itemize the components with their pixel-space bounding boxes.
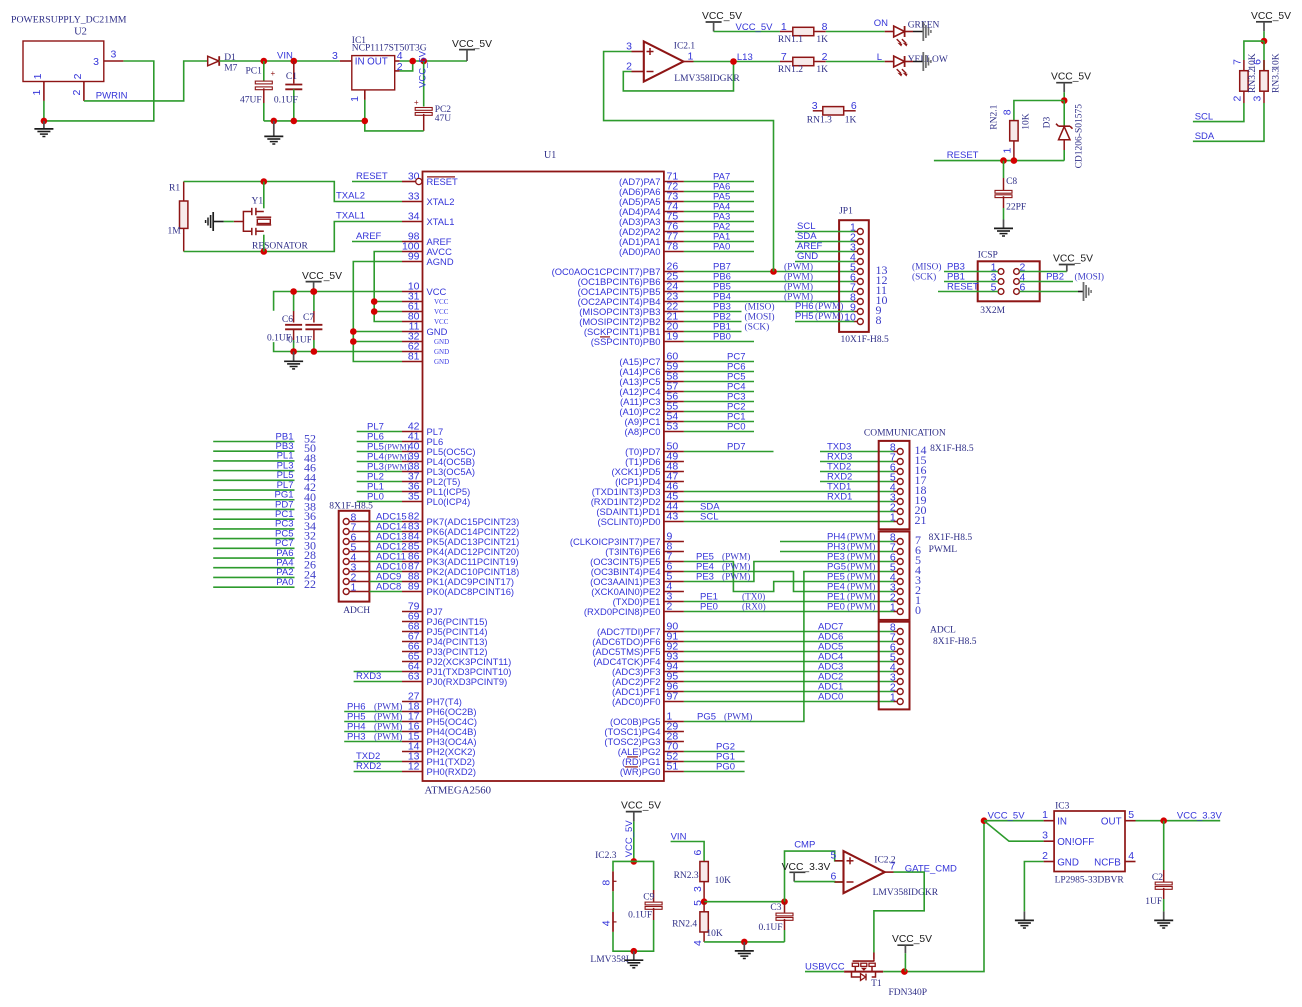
svg-text:1K: 1K [816,35,828,45]
wire GND rail row62 [274,342,402,351]
svg-text:34: 34 [408,211,420,223]
U1 pin 38 PL3(OC5A) [402,461,475,477]
wire IC1 OUT to VCC_5V supply [400,60,467,62]
svg-text:47UF: 47UF [240,96,262,106]
svg-text:89: 89 [408,581,420,593]
svg-text:SDA: SDA [1195,131,1215,142]
ADCH pin 3 [343,562,369,575]
U1 pin 55 (A10)PC2 [619,401,684,417]
svg-text:PG5: PG5 [697,712,716,723]
wire net PA0 [684,242,754,253]
U1 pin 77 (AD1)PA1 [619,231,684,247]
svg-text:L: L [877,52,882,63]
svg-text:COMMUNICATION: COMMUNICATION [864,428,946,438]
wire net PA1 [684,232,754,243]
svg-text:0.1UF: 0.1UF [759,923,783,933]
wire net TXD1 PD3 to COMMUNICATION [684,482,894,493]
svg-text:GND: GND [434,358,449,366]
U1 pin 39 PL4(OC5B) [402,451,475,467]
U1 pin 80 VCC [402,311,449,326]
ADCH pin 8 [343,512,369,525]
net stub PA4 pin 26 [213,558,316,572]
U1 pin 71 (AD7)PA7 [619,171,684,187]
svg-text:GND: GND [427,326,448,337]
svg-text:2: 2 [626,60,632,72]
svg-text:ADC8: ADC8 [376,582,401,593]
U1 pin 18 PH6(OC2B) [402,701,477,717]
wire net SDA PD1 to COMMUNICATION [684,502,894,513]
svg-text:PE3: PE3 [696,572,714,583]
svg-text:OUT: OUT [367,57,388,68]
wire net PL5 to U1 [357,442,410,453]
wire net PE1 to PWML pin2 [684,592,894,603]
svg-text:8: 8 [1001,109,1013,115]
wire net ADC3 to ADCL [684,662,894,673]
net stub PL5 pin 44 [213,470,316,484]
wire net PL2 to U1 [357,472,402,483]
JP1 pin 9 [850,302,882,318]
net stub PG1 pin 40 [213,490,316,504]
svg-text:0.1UF: 0.1UF [274,96,298,106]
wire PWRIN from U2 pin2 to D1 [84,61,208,102]
U1 pin 43 (SCLINT0)PD0 [597,511,683,527]
wire net PB5 (PWM) to JP1 [684,282,854,293]
svg-text:1UF: 1UF [1145,897,1162,907]
svg-text:PWRIN: PWRIN [96,91,128,102]
supply VCC_5V at T1 [892,934,932,972]
svg-text:PB0: PB0 [713,332,731,343]
resistor R1 1M [168,182,188,252]
JP1 pin 7 [850,282,887,298]
U1 pin 67 PJ4(PCINT13) [402,631,487,647]
U1 pin 24 (OC1APCINT5)PB5 [578,281,684,297]
junction dots at resonator [261,178,268,255]
svg-text:4: 4 [601,920,613,926]
wire ICSP pin2 to VCC_5V [1019,271,1066,273]
svg-text:PG5: PG5 [827,562,846,573]
wire net PH4 (PWM) to U1 [344,722,402,733]
junction dot IC2.3 top [631,858,638,865]
wire net PB7 (PWM) to JP1 [684,262,854,273]
svg-text:CMP: CMP [794,839,815,850]
svg-text:LP2985-33DBVR: LP2985-33DBVR [1055,876,1125,886]
wire XTAL2 top rail [184,182,402,202]
wire net SCL PD0 to COMMUNICATION [684,512,894,523]
PWML pin 1 [890,602,921,618]
wire net PE4 to PWML pin3 [684,562,894,593]
junction dot VCC reset [1061,97,1068,104]
svg-text:RN1.1: RN1.1 [778,35,803,45]
svg-text:USBVCC: USBVCC [805,961,845,972]
wire VCC_5V to IC3 ON!OFF [984,821,1044,842]
U1 pin 5 (OC3AAIN1)PE3 [590,571,684,587]
COMMUNICATION pin 5 [890,472,927,488]
svg-text:3: 3 [332,50,338,62]
wire net PG1 [684,752,745,763]
JP1 pin 10 [844,312,881,328]
wire ADC8 from ADCH to U1 [369,582,402,593]
svg-text:1: 1 [31,90,43,96]
svg-text:PL0(ICP4): PL0(ICP4) [427,496,471,507]
svg-text:VCC_5V: VCC_5V [452,39,492,50]
ICSP pins 1 2 [991,262,1026,275]
ground under U2 [34,121,53,137]
svg-text:AREF: AREF [356,231,382,242]
ADCH pin 2 [343,572,369,585]
U1 pin 2 (RXD0PCIN8)PE0 [584,601,684,617]
wire net PG2 [684,742,745,753]
svg-text:PH3: PH3 [347,732,365,743]
svg-text:Y1: Y1 [252,196,264,206]
wire IC2.1 output L13 [694,52,780,63]
U1 pin 97 (ADC0)PF0 [612,691,684,707]
ground under C6 [284,352,303,369]
svg-text:C7: C7 [303,313,314,323]
net AREF to U1 [352,231,402,242]
wire net RXD3 stub at COMMUNICATION [820,452,894,463]
ADCL pin 3 [890,672,903,685]
transistor T1 FDN340P [844,960,927,998]
wire net PC4 [684,382,754,393]
svg-text:53: 53 [667,421,679,433]
power connector U2 POWERSUPPLY_DC21MM [11,15,127,101]
wire net PL7 to U1 [357,422,402,433]
wire net SDA pullup [1193,103,1264,142]
U1 pin 94 (ADC3)PF3 [612,661,684,677]
junction dot at T1 drain supply [901,968,908,975]
svg-text:(PWM): (PWM) [847,552,875,563]
wire net ADC4 to ADCL [684,652,894,663]
U1 pin 100 AVCC [402,241,452,257]
svg-text:1: 1 [890,692,896,704]
capacitor C8 22PF [995,161,1026,220]
svg-text:(PWM): (PWM) [847,562,875,573]
junction dot IC2.3 bottom [631,948,638,955]
svg-text:SCL: SCL [1195,111,1213,122]
U1 pin 41 PL6 [402,431,443,447]
wire net PD7 [684,442,774,453]
wire net PB2 MOSI [684,312,775,323]
svg-text:PK0(ADC8PCINT16): PK0(ADC8PCINT16) [427,586,515,597]
wire net PC7 [684,352,754,363]
svg-text:RESET: RESET [947,150,979,161]
resistor RN1.2 1K [778,51,828,75]
wire net TXD2 stub at COMMUNICATION [820,462,894,473]
svg-text:6: 6 [1252,59,1264,65]
wire net SCL stub at JP1 [795,221,854,232]
svg-text:(AD0)PA0: (AD0)PA0 [619,246,661,257]
U1 pin 47 (ICP1)PD4 [615,471,684,487]
U1 pin 61 VCC [402,301,449,316]
wire net TXD3 stub PJ1 [354,671,402,673]
svg-text:(MOSI): (MOSI) [745,312,775,323]
svg-text:IC2.2: IC2.2 [874,856,896,866]
wire net ADC7 to ADCL [684,622,894,633]
U1 pin 63 PJ0(RXD3PCINT9) [402,671,507,687]
svg-text:RESONATOR: RESONATOR [252,241,308,251]
svg-text:(SCK): (SCK) [912,272,936,283]
wire RESET to ICSP pin5 [938,282,998,293]
svg-text:RXD2: RXD2 [827,472,852,483]
PWML pin 7 [890,542,921,558]
connector PWML 8X1F-H8.5 outline [879,532,973,620]
svg-text:(PWM): (PWM) [815,311,843,322]
svg-text:VCC_3.3V: VCC_3.3V [782,862,831,873]
svg-text:PH3: PH3 [827,542,845,553]
connector JP1 10X1F-H8.5 outline [839,207,889,345]
wire IC3 OUT VCC_3.3V [1136,811,1223,822]
U1 pin 70 (ALE)PG2 [618,741,684,757]
PWML pin 4 [890,572,921,588]
U1 pin 45 (RXD1INT2)PD2 [591,491,684,507]
resistor RN1.3 1K spare [807,100,857,126]
svg-text:C9: C9 [643,893,654,903]
capacitor PC2 47U [414,50,451,131]
U1 pin 10 VCC [402,281,447,297]
svg-text:(PWM): (PWM) [847,572,875,583]
wire net RESET row [934,150,1064,161]
net stub PA2 pin 24 [213,567,316,581]
wire AGND chain [353,262,402,362]
svg-text:(TX0): (TX0) [742,592,765,603]
svg-text:0.1UF: 0.1UF [628,911,652,921]
svg-text:22PF: 22PF [1006,203,1026,213]
net stub PD7 pin 38 [213,499,316,513]
svg-text:(RXD0PCIN8)PE0: (RXD0PCIN8)PE0 [584,606,661,617]
svg-text:(PWM): (PWM) [784,282,813,293]
wire net PE0 to PWML pin1 [684,602,894,613]
svg-text:8X1F-H8.5: 8X1F-H8.5 [930,444,974,454]
ADCL pin 2 [890,682,903,695]
wire net PC6 [684,362,754,373]
svg-text:VIN: VIN [277,50,293,61]
U1 pin 68 PJ5(PCINT14) [402,621,487,637]
svg-text:51: 51 [667,761,679,773]
PWML pin 5 [890,562,921,578]
svg-text:33: 33 [408,191,420,203]
wire net PA3 [684,212,754,223]
capacitor PC1 47UF [240,61,276,121]
U1 pin 12 PH0(RXD2) [402,761,476,777]
ADCH pin 4 [343,552,369,565]
svg-text:1: 1 [781,21,787,33]
svg-text:RN2.4: RN2.4 [672,919,697,929]
resistor RN3.3 10K pullup SDA [1252,41,1282,103]
U1 pin 37 PL2(T5) [402,471,460,487]
U1 pin 15 PH3(OC4A) [402,731,477,747]
junction dot divider mid [701,898,708,905]
svg-text:PA0: PA0 [276,577,293,588]
COMMUNICATION pin 2 [890,502,927,518]
wire net VIN to divider [671,831,705,861]
svg-text:XTAL2: XTAL2 [427,196,455,207]
U1 pin 81 GND [402,351,449,366]
svg-text:0: 0 [915,603,921,617]
wire ADC11 from ADCH to U1 [369,552,406,563]
wire VCC_5V to RN1.1 [714,22,780,33]
wire IC1 GND pin1 to rail and PC2 return [365,100,424,131]
op-amp power block IC2.3 LMV358I [590,851,633,965]
PWML pin 3 [890,582,921,598]
U1 pin 95 (ADC2)PF2 [612,671,684,687]
wire net PH6 (PWM) to U1 [344,702,402,713]
svg-text:10K: 10K [1272,53,1282,70]
svg-text:PC1: PC1 [246,67,263,77]
svg-text:4: 4 [692,940,704,946]
wire SCK PB1 to ICSP pin3 [912,272,998,283]
diode D1 M7 [208,53,238,74]
connector ADCL 8X1F-H8.5 outline [879,622,977,710]
svg-text:RN3.3: RN3.3 [1272,68,1282,93]
wire VCC pin61 [374,311,402,313]
junction dot L13 [730,58,737,65]
svg-text:ON!OFF: ON!OFF [1057,837,1094,848]
svg-text:3X2M: 3X2M [980,306,1005,316]
wire net USBVCC to T1 [805,961,845,972]
U1 pin 28 (TOSC2)PG3 [604,731,683,747]
svg-text:2: 2 [1042,850,1048,862]
net stub PL7 pin 42 [213,480,316,494]
ground at YELLOW LED [905,52,931,71]
U1 pin 51 (WR)PG0 [620,761,684,777]
wire net ADC0 to ADCL [684,692,894,703]
svg-text:VCC_5V: VCC_5V [736,22,774,33]
svg-text:1: 1 [890,512,896,524]
wire ADC9 from ADCH to U1 [369,572,402,583]
svg-text:+: + [414,98,419,107]
U1 pin 49 (T1)PD6 [625,451,684,467]
wire ADC14 from ADCH to U1 [369,522,406,533]
U1 pin 64 PJ1(TXD3PCINT10) [402,661,511,677]
wire GND pin32 [353,341,402,343]
svg-text:CD1206-S01575: CD1206-S01575 [1075,104,1085,169]
svg-text:(RX0): (RX0) [742,602,766,613]
svg-text:97: 97 [667,691,679,703]
U1 pin 85 PK4(ADC12PCINT20) [402,541,519,557]
svg-text:(SCK): (SCK) [745,322,770,333]
svg-text:PH0(RXD2): PH0(RXD2) [427,766,477,777]
U1 pin 40 PL5(OC5C) [402,441,475,457]
svg-text:1: 1 [351,582,357,594]
svg-text:RXD1: RXD1 [827,492,852,503]
wire net TXD2 to U1 [354,751,402,762]
svg-text:(PWM): (PWM) [722,562,750,573]
svg-text:PE0: PE0 [700,602,718,613]
svg-text:47U: 47U [435,114,452,124]
svg-text:4: 4 [1128,850,1134,862]
junction dots on RESET row [1000,157,1017,164]
U1 pin 69 PJ6(PCINT15) [402,611,487,627]
svg-text:RXD2: RXD2 [356,761,381,772]
svg-text:(MOSI): (MOSI) [1075,272,1104,283]
svg-text:M7: M7 [224,64,237,74]
net stub PL3 pin 46 [213,460,316,474]
U1 pin 83 PK6(ADC14PCINT22) [402,521,519,537]
net stub PL1 pin 48 [213,451,316,465]
JP1 pin 8 [850,292,888,308]
U1 pin 7 (OC3CINT5)PE5 [590,551,684,567]
wire ADC15 from ADCH to U1 [369,512,406,523]
svg-text:3: 3 [626,40,632,52]
svg-text:U2: U2 [74,27,87,38]
svg-text:3: 3 [812,100,818,112]
svg-text:FDN340P: FDN340P [889,988,928,998]
ground under C8 [994,220,1013,237]
net stub PA6 pin 28 [213,548,316,562]
supply VCC_5V at ICSP [1053,254,1093,272]
svg-text:L13: L13 [737,52,753,63]
wire VCC row [274,292,402,311]
wire net PB1 SCK [684,322,769,333]
svg-text:(PWM): (PWM) [784,272,813,283]
wire net PH3 (PWM) to U1 [344,732,402,743]
svg-text:2: 2 [667,601,673,613]
ground at resonator [206,212,234,231]
U1 pin 89 PK0(ADC8PCINT16) [402,581,514,597]
junction dots on ground rail [271,118,298,125]
svg-text:RN2.3: RN2.3 [674,871,699,881]
svg-text:C1: C1 [286,72,297,82]
wire VCC pin31 [374,301,402,303]
wire net PG0 [684,762,745,773]
wire net PH5 PWM at JP1 pin10 [795,311,854,322]
svg-text:PL0: PL0 [367,492,384,503]
wire net RXD2 stub at COMMUNICATION [820,472,894,483]
svg-text:10K: 10K [715,876,732,886]
LED YELLOW [885,55,948,76]
U1 pin 8 (T3INT6)PE6 [605,541,684,557]
svg-text:IN: IN [355,57,365,68]
svg-text:TXAL2: TXAL2 [336,191,365,202]
svg-text:+: + [271,69,276,78]
svg-text:22: 22 [304,577,316,591]
svg-text:VCC_5V: VCC_5V [702,11,742,22]
U1 pin 36 PL1(ICP5) [402,481,470,497]
svg-text:RN3.2: RN3.2 [1248,68,1258,93]
svg-text:IN: IN [1057,817,1067,828]
svg-text:GND: GND [1057,858,1079,869]
svg-text:7: 7 [1232,59,1244,65]
wire D1 cathode to VIN node [219,50,340,61]
svg-text:3: 3 [1252,96,1264,102]
COMMUNICATION pin 7 [890,452,927,468]
supply VCC_5V for IC2.3 [621,801,661,822]
U1 pin 65 PJ2(XCK3PCINT11) [402,651,511,667]
connector ICSP 3X2M outline [978,250,1040,316]
svg-text:(PWM): (PWM) [374,702,402,713]
U1 pin 75 (AD3)PA3 [619,211,684,227]
svg-text:XTAL1: XTAL1 [427,216,455,227]
svg-text:6: 6 [830,871,836,883]
wire net PB4 (PWM) to JP1 [684,292,854,303]
svg-text:PJ0(RXD3PCINT9): PJ0(RXD3PCINT9) [427,676,508,687]
wire net PH4 stub at PWML pin8 [780,532,894,543]
svg-text:IC2.3: IC2.3 [595,851,617,861]
supply VCC_5V reset circuit [1051,72,1091,101]
net stub PC5 pin 32 [213,528,316,542]
ADCH pin 5 [343,542,369,555]
svg-text:6: 6 [692,850,704,856]
U1 pin 46 (TXD1INT3)PD3 [592,481,684,497]
svg-text:GND: GND [797,251,818,262]
svg-text:3: 3 [111,49,117,61]
wire net RXD2 to U1 [354,761,402,772]
svg-text:ADC0: ADC0 [818,692,843,703]
U1 pin 59 (A14)PC6 [619,361,684,377]
svg-text:ADCH: ADCH [343,606,370,616]
svg-text:1: 1 [1001,148,1013,154]
U1 pin 19 (SSPCINT0)PB0 [591,331,684,347]
